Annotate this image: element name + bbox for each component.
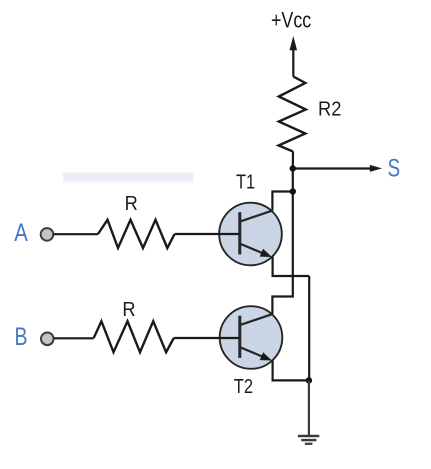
transistor T2 xyxy=(220,306,283,369)
wire input B xyxy=(54,337,94,339)
svg-text:+Vcc: +Vcc xyxy=(271,8,311,33)
transistor T1 xyxy=(219,203,282,266)
wire S output xyxy=(293,165,382,172)
wire input A xyxy=(54,233,98,235)
wire R2 to node S xyxy=(292,152,294,169)
wire R to T1 base xyxy=(175,233,240,235)
wire emitter bus xyxy=(308,276,310,380)
node S junction xyxy=(290,165,296,171)
highlight bar xyxy=(63,173,194,185)
ground xyxy=(298,436,319,444)
wire T1 emitter xyxy=(273,257,310,276)
wire T1 collector xyxy=(272,192,292,211)
wire to ground xyxy=(308,380,310,435)
svg-text:T2: T2 xyxy=(234,376,253,398)
wire collector bus to T2 xyxy=(272,169,292,315)
node ground junction xyxy=(306,377,312,383)
resistor R (input A) xyxy=(98,220,175,248)
wire T2 emitter xyxy=(273,360,309,380)
svg-text:A: A xyxy=(14,219,28,247)
terminal A xyxy=(41,228,54,241)
wire R to T2 base xyxy=(174,337,240,339)
resistor R (input B) xyxy=(94,321,174,352)
resistor R2 xyxy=(279,77,306,152)
power Vcc arrow xyxy=(290,36,298,77)
svg-text:R: R xyxy=(125,193,138,215)
svg-text:T1: T1 xyxy=(236,172,255,194)
svg-text:B: B xyxy=(15,323,28,351)
svg-text:R2: R2 xyxy=(318,99,341,121)
svg-text:S: S xyxy=(388,154,401,182)
svg-text:R: R xyxy=(122,299,135,321)
node T1 collector junction xyxy=(290,188,296,194)
terminal B xyxy=(41,333,54,346)
